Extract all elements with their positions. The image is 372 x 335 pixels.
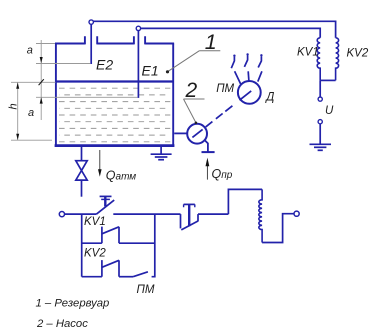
contact blade (main, with button): [97, 200, 115, 214]
svg-text:a: a: [27, 45, 33, 57]
branch 1 wire right: [119, 242, 155, 244]
shaft dashed coupling: [192, 91, 251, 137]
dimension witness lines: [11, 40, 137, 140]
wire from coil to right terminal: [262, 214, 294, 243]
ground (under tank): [151, 146, 172, 159]
terminal (source bottom): [318, 120, 322, 124]
Qatm arrow: [98, 150, 102, 177]
pump (2) circle: [187, 124, 207, 144]
contact PM blade (branch 2): [133, 272, 148, 277]
svg-text:ПМ: ПМ: [137, 284, 155, 296]
liquid surface: [57, 80, 173, 82]
tank (reservoir 1) walls: [55, 36, 175, 146]
branch 1 wire left: [82, 242, 102, 244]
ground (right): [310, 144, 332, 150]
svg-text:KV2: KV2: [84, 247, 106, 259]
svg-text:2: 2: [185, 79, 198, 102]
contact KV1 (branch 1): [102, 227, 119, 244]
discharge pipe: [204, 140, 208, 152]
dimension slash at surface: [39, 79, 44, 85]
svg-text:E1: E1: [142, 62, 159, 78]
valve: [76, 146, 87, 196]
button actuator (main left): [100, 196, 112, 206]
wire main line seg 3: [198, 213, 228, 215]
motor D circle: [238, 81, 261, 104]
Qpr arrow: [206, 158, 210, 180]
svg-text:2 – Насос: 2 – Насос: [36, 318, 88, 330]
relay coil KV1: [317, 38, 320, 81]
button actuator (main right): [184, 204, 195, 226]
branch 2 wire mid: [119, 276, 133, 278]
svg-text:E2: E2: [96, 56, 113, 72]
wire to source terminal: [319, 80, 321, 97]
left bus wire: [81, 214, 83, 277]
control circuit: left terminal: [59, 212, 64, 217]
wire to ground: [319, 124, 321, 144]
svg-text:1 – Резервуар: 1 – Резервуар: [36, 298, 110, 310]
wire main line seg 2: [113, 213, 180, 215]
svg-text:U: U: [325, 105, 334, 117]
svg-text:KV2: KV2: [347, 48, 369, 60]
relay coil KV2: [336, 38, 339, 81]
callout 2 (digit, underline, leader): [184, 79, 205, 124]
electrode E1: [136, 26, 140, 98]
dimension arrow h top: [16, 83, 19, 89]
right bus wire: [152, 214, 155, 277]
svg-text:KV1: KV1: [84, 216, 106, 228]
three-phase lead 2: [244, 53, 249, 81]
wire joining coil bottoms: [320, 79, 335, 81]
callout 1 (digit, underline, leader, dot): [166, 30, 220, 74]
branch 2 wire left: [82, 276, 102, 278]
dimension arrow a2 (up): [40, 97, 43, 103]
liquid hatching: [59, 88, 170, 142]
three-phase lead 3: [258, 54, 263, 82]
contact KV2 (branch 2): [102, 260, 119, 277]
wire rise to coil: [228, 189, 262, 214]
starter coil PM: [259, 189, 262, 242]
discharge outlet bar: [202, 151, 215, 153]
suction pipe: [174, 132, 187, 134]
wire E1 to KV1: [141, 28, 321, 37]
three-phase lead 1: [231, 55, 240, 84]
dimension arrow a1 (down): [40, 57, 43, 63]
svg-text:a: a: [28, 107, 34, 119]
pushbutton PM contact (main): [181, 214, 199, 230]
svg-text:ПМ: ПМ: [216, 83, 234, 95]
dimension arrow h bottom: [16, 134, 19, 140]
svg-text:KV1: KV1: [297, 47, 319, 59]
electrode E2: [89, 20, 93, 64]
svg-text:Qатм: Qатм: [106, 169, 137, 183]
wire E2 to KV2: [93, 21, 335, 38]
svg-text:h: h: [8, 103, 20, 109]
svg-text:Qпр: Qпр: [212, 167, 233, 181]
svg-text:Д: Д: [264, 92, 274, 104]
wire main line seg 1: [65, 213, 97, 215]
right terminal: [294, 211, 299, 216]
terminal (source top): [318, 97, 322, 101]
